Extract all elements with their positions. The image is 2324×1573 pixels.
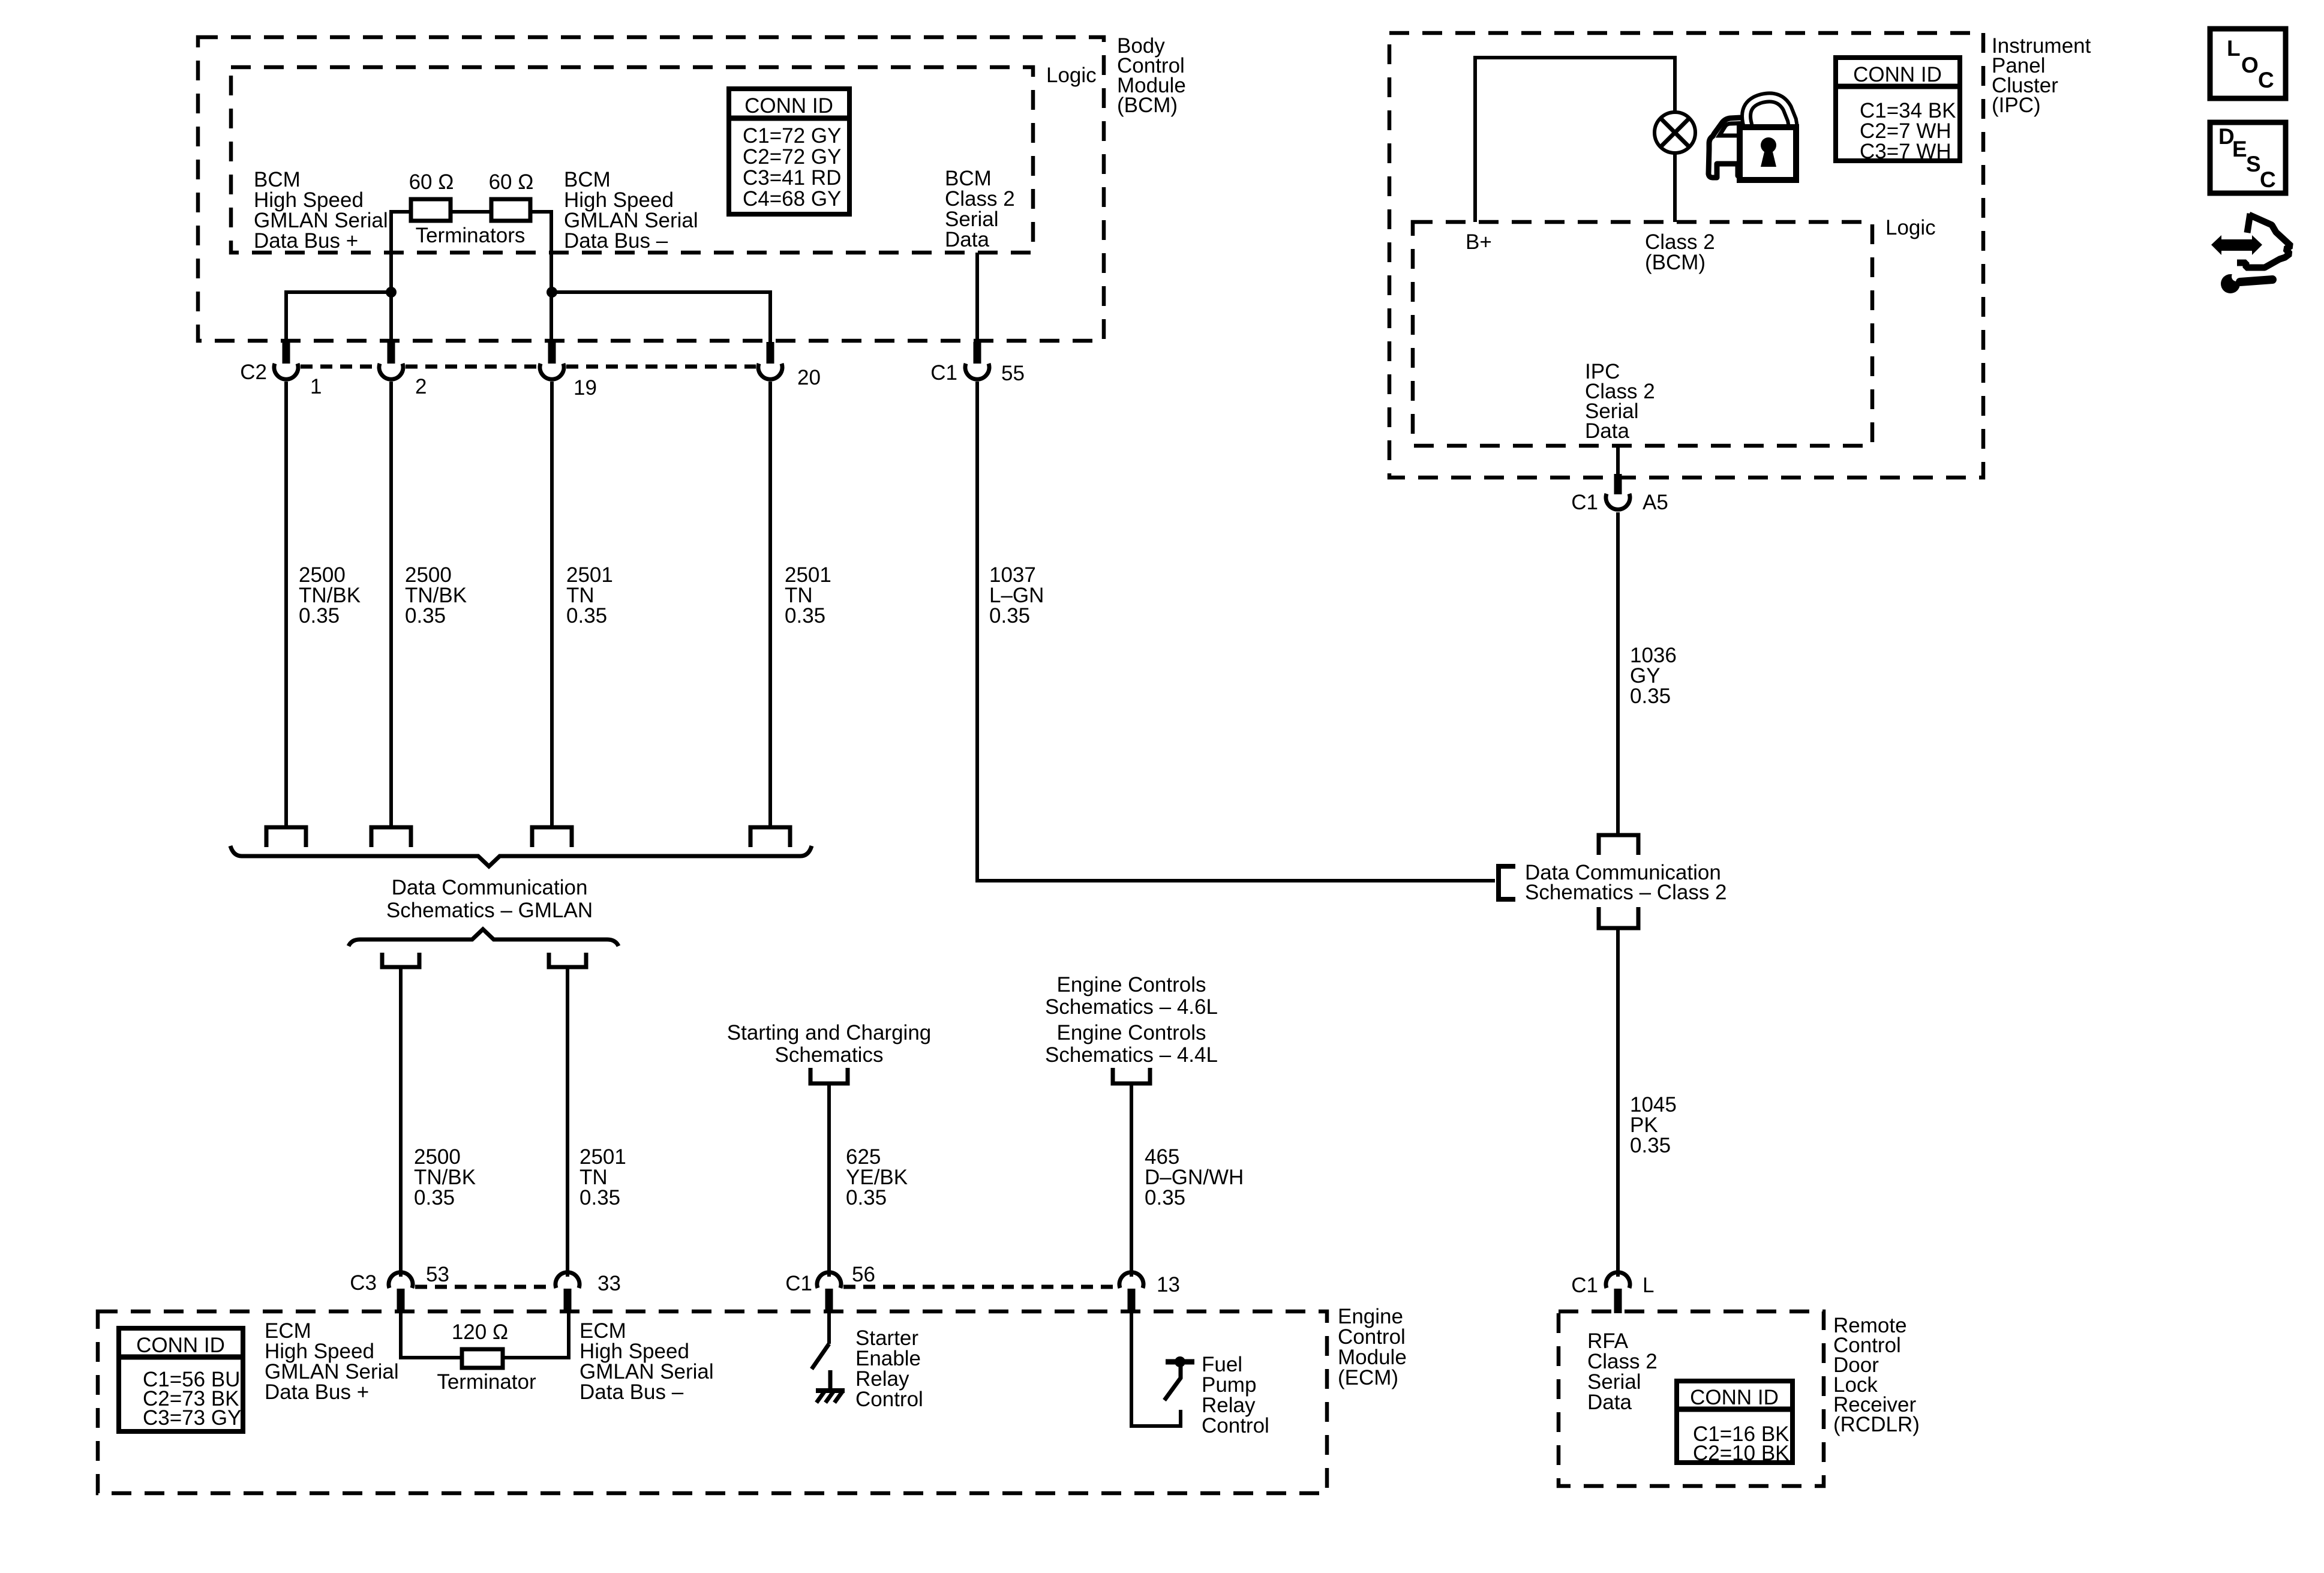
svg-text:C2=72 GY: C2=72 GY (743, 145, 841, 169)
svg-text:Control: Control (855, 1388, 923, 1411)
svg-text:Logic: Logic (1046, 64, 1097, 87)
svg-text:Data Bus +: Data Bus + (265, 1380, 369, 1404)
svg-text:O: O (2241, 53, 2259, 77)
svg-text:53: 53 (426, 1263, 449, 1286)
svg-text:0.35: 0.35 (405, 604, 446, 628)
svg-text:C1: C1 (930, 361, 957, 385)
svg-text:13: 13 (1157, 1273, 1180, 1296)
svg-text:Data: Data (1585, 419, 1629, 443)
svg-text:Schematics – 4.4L: Schematics – 4.4L (1045, 1043, 1218, 1067)
svg-text:L: L (1643, 1274, 1654, 1297)
svg-text:0.35: 0.35 (1630, 685, 1671, 708)
svg-text:0.35: 0.35 (580, 1186, 620, 1209)
svg-text:A5: A5 (1643, 491, 1668, 514)
svg-text:Engine Controls: Engine Controls (1056, 973, 1206, 996)
svg-text:CONN ID: CONN ID (744, 94, 833, 118)
svg-text:(BCM): (BCM) (1117, 94, 1178, 117)
svg-text:Data Bus –: Data Bus – (580, 1380, 684, 1404)
svg-text:C2=10 BK: C2=10 BK (1693, 1442, 1789, 1465)
svg-text:60 Ω: 60 Ω (409, 170, 454, 194)
svg-text:Terminator: Terminator (437, 1370, 536, 1394)
svg-text:S: S (2246, 152, 2261, 176)
svg-text:C4=68 GY: C4=68 GY (743, 187, 841, 211)
svg-text:0.35: 0.35 (1630, 1134, 1671, 1157)
svg-text:Engine Controls: Engine Controls (1056, 1021, 1206, 1044)
svg-text:0.35: 0.35 (1145, 1186, 1185, 1209)
svg-text:Starting and Charging: Starting and Charging (727, 1021, 932, 1044)
svg-text:0.35: 0.35 (989, 604, 1030, 628)
svg-text:56: 56 (852, 1263, 875, 1286)
svg-text:C2: C2 (240, 361, 267, 384)
svg-text:33: 33 (597, 1272, 621, 1295)
svg-text:C3=7 WH: C3=7 WH (1860, 140, 1951, 163)
svg-text:C3=41 RD: C3=41 RD (743, 166, 841, 190)
svg-text:Control: Control (1202, 1414, 1269, 1437)
svg-text:(BCM): (BCM) (1645, 251, 1706, 274)
svg-text:C: C (2260, 167, 2276, 192)
svg-text:(ECM): (ECM) (1338, 1366, 1398, 1389)
svg-text:120 Ω: 120 Ω (452, 1320, 508, 1344)
svg-text:Logic: Logic (1885, 216, 1936, 239)
svg-text:(IPC): (IPC) (1992, 94, 2041, 117)
svg-text:E: E (2232, 137, 2247, 161)
svg-text:CONN ID: CONN ID (1690, 1386, 1779, 1409)
svg-text:Schematics – Class 2: Schematics – Class 2 (1525, 881, 1727, 904)
svg-text:C3: C3 (350, 1271, 377, 1295)
svg-text:Schematics – 4.6L: Schematics – 4.6L (1045, 995, 1218, 1019)
svg-text:Data: Data (1587, 1391, 1632, 1414)
svg-text:C3=73 GY: C3=73 GY (143, 1406, 241, 1430)
svg-text:Data: Data (945, 228, 989, 251)
svg-text:L: L (2227, 36, 2241, 61)
svg-text:C1=72 GY: C1=72 GY (743, 124, 841, 148)
svg-text:C1: C1 (1571, 491, 1598, 514)
svg-text:Schematics: Schematics (775, 1043, 884, 1067)
svg-text:CONN ID: CONN ID (1853, 63, 1942, 86)
svg-text:Data Bus +: Data Bus + (254, 229, 358, 253)
svg-text:2: 2 (415, 375, 427, 398)
svg-text:1: 1 (310, 375, 322, 398)
svg-text:(RCDLR): (RCDLR) (1833, 1413, 1920, 1436)
svg-text:Data Communication: Data Communication (392, 876, 588, 899)
svg-text:Data Bus –: Data Bus – (564, 229, 668, 253)
svg-text:Schematics – GMLAN: Schematics – GMLAN (386, 899, 593, 922)
svg-text:C1: C1 (785, 1272, 812, 1295)
svg-text:C1: C1 (1571, 1274, 1598, 1297)
svg-text:0.35: 0.35 (785, 604, 825, 628)
svg-text:20: 20 (797, 366, 821, 389)
svg-text:0.35: 0.35 (299, 604, 340, 628)
svg-text:CONN ID: CONN ID (136, 1334, 225, 1357)
svg-text:19: 19 (574, 376, 597, 400)
svg-text:B+: B+ (1466, 230, 1492, 254)
svg-text:0.35: 0.35 (846, 1186, 887, 1209)
svg-text:Terminators: Terminators (416, 224, 526, 247)
svg-text:55: 55 (1001, 362, 1025, 385)
svg-text:60 Ω: 60 Ω (489, 170, 534, 194)
svg-text:0.35: 0.35 (414, 1186, 455, 1209)
svg-text:0.35: 0.35 (566, 604, 607, 628)
svg-text:C: C (2258, 68, 2274, 92)
